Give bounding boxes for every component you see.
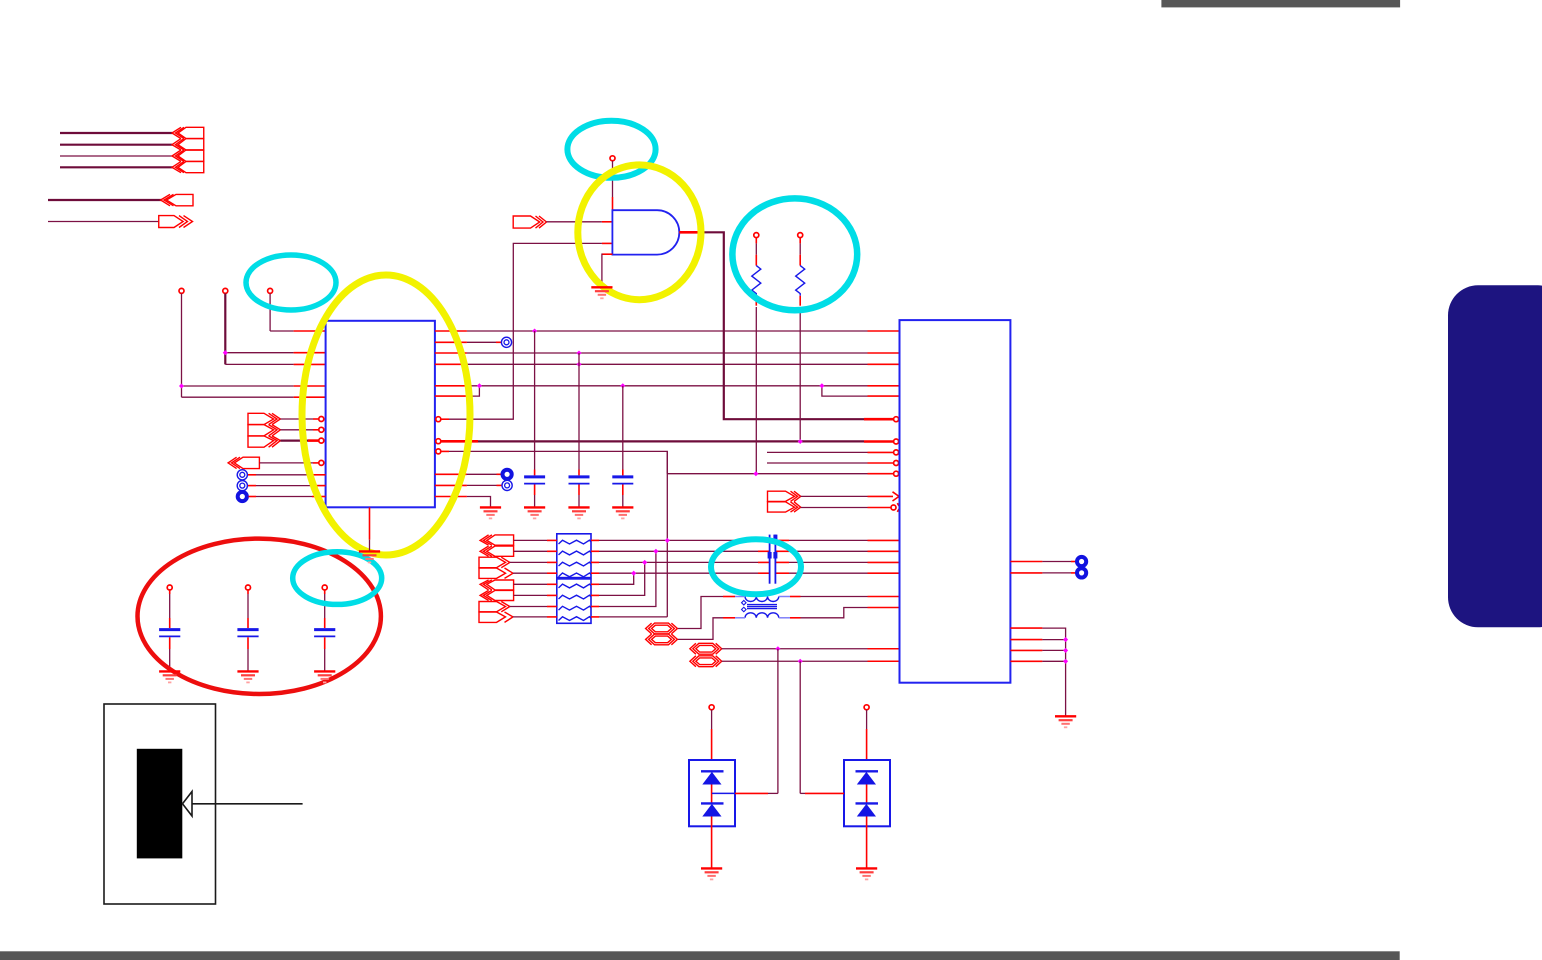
pin node above C6	[322, 585, 327, 590]
wire hex PH1a to T1 top-left	[723, 596, 735, 598]
wire RN row1 right to U2	[591, 539, 599, 541]
capacitor C2	[576, 350, 581, 355]
wire BUS1 line3	[60, 155, 173, 157]
junction dot R1/y473.7	[753, 471, 758, 476]
wire U1 y451.4 right then down x667.3	[441, 450, 449, 452]
wire U1 y485.4 to connector	[435, 484, 467, 486]
ground under C1	[524, 507, 545, 518]
wire to port P2	[48, 199, 162, 201]
wire T1 top-right to U2 y596.5	[790, 596, 801, 598]
resistor R1	[755, 238, 757, 244]
wire P4c to U1 y440.6 (thick)	[280, 440, 308, 442]
junction dot row2/x655.9	[653, 549, 658, 554]
wire U2 right y561.5 to connector	[1010, 561, 1042, 563]
wire D1 mid tap	[712, 792, 735, 794]
wire U2 right y650.4	[1010, 649, 1042, 651]
wire U2 right y639.6	[1010, 639, 1042, 641]
highlight cyan ellipse over AND pin	[567, 121, 655, 178]
wire from A2 down (thick)	[224, 294, 226, 365]
wire T1 bottom-right to U2 y607.5	[790, 617, 801, 619]
junction dot A2/y352.7	[223, 350, 228, 355]
junction dot 1065.6/661.3	[1063, 659, 1068, 664]
pin node above R1	[754, 233, 759, 238]
wire net y463 into U2	[767, 462, 868, 464]
wire U1 y496.5 to ground	[435, 496, 467, 498]
junction dot 1065.6/639.6	[1063, 637, 1068, 642]
pin node above D1	[709, 705, 714, 710]
capacitor C3	[620, 383, 625, 388]
ground at 490.5	[480, 507, 501, 518]
wire from A3 down	[269, 294, 271, 332]
wire U1 pin row y386 left	[182, 385, 294, 387]
connector J1 black body	[137, 749, 183, 859]
wire P7b to U2 y507.5	[801, 507, 868, 509]
wire net y473.7 from bend x667.3ish to U2	[667, 473, 867, 475]
wire P7a to U2 y496.4	[801, 495, 868, 497]
transformer T1 bottom winding	[745, 613, 779, 618]
highlight cyan ellipse over C7	[711, 539, 801, 594]
diode D2a	[856, 770, 879, 772]
capacitor C4	[169, 590, 171, 594]
wire BUS1 line2	[60, 144, 173, 146]
pin node above C4	[167, 585, 172, 590]
wire bend chip1 y451.4 down x667.3 handled above	[666, 451, 668, 473]
wire U1 pin row y331 left	[270, 330, 294, 332]
IC U1 body	[326, 321, 435, 508]
junction dot R2/y441.5	[798, 439, 803, 444]
port P2 (left-pointing flag)	[161, 194, 193, 205]
connector node NC5 (filled)	[503, 470, 512, 479]
wire net y452.4 into U2	[767, 451, 868, 453]
IC U2 body	[900, 320, 1011, 683]
wire D2 mid tap	[822, 792, 844, 794]
wire P4b to U1 y429.8	[280, 429, 313, 431]
port P3 (right-pointing flag)	[159, 216, 193, 228]
diode D1b	[701, 802, 724, 804]
wire U1 y342.3 to connector	[435, 341, 467, 343]
diode pack D1 box	[689, 760, 735, 826]
wires flags to RN rows1-8	[510, 540, 557, 617]
pin node above AND gate	[610, 156, 615, 161]
ground right of U2	[1055, 716, 1076, 727]
transformer T1 phase dots	[742, 600, 747, 605]
wire BUS1 line4	[60, 166, 173, 168]
wire R1 down to net y473.7	[755, 307, 757, 474]
resistor R2	[799, 238, 801, 244]
transformer T1 top winding	[745, 597, 779, 602]
connector node NC4 (open)	[501, 337, 511, 347]
pin circle U1 y429.8	[319, 427, 324, 432]
U2 pin arrow y496.4	[893, 492, 900, 501]
transformer T1 core	[747, 604, 777, 606]
wire RN row8 to bend x667.3	[591, 616, 599, 618]
wire down to D1 tap	[777, 649, 779, 794]
port P5 (left-pointing flag)	[228, 457, 259, 468]
junction dot row1/x667.3	[665, 538, 670, 543]
wire U1 pin row y364.4 left	[225, 363, 293, 365]
wire U1 bottom stem	[369, 507, 371, 539]
wire U2 right y661.3	[1010, 660, 1042, 662]
pin circle U2 left y473.7	[894, 471, 899, 476]
ground under C6	[314, 671, 335, 682]
highlight cyan circle over R1 R2	[732, 198, 857, 310]
ground under U1	[359, 551, 380, 562]
wire from A1 down	[181, 294, 183, 398]
pin node above D2	[864, 705, 869, 710]
connector node NC7 (filled)	[1077, 557, 1086, 566]
pin circle U2 y507.5	[891, 505, 896, 510]
wire NC3 to U1	[249, 496, 257, 498]
connector node NC3 (filled)	[238, 492, 247, 501]
pin circle U1 y440.6	[319, 438, 324, 443]
wire BUS1 line1	[60, 132, 173, 134]
port P6 (right-pointing flag) to AND input1	[513, 216, 546, 228]
highlight yellow ellipse over U1	[302, 275, 470, 555]
pin circle U1 y419	[319, 417, 324, 422]
diode pack D2 box	[844, 760, 890, 826]
ground under D1	[701, 868, 722, 879]
port P1 flag stack (4 left-pointing flags)	[172, 127, 204, 172]
wire RN row2 right to U2	[591, 550, 599, 552]
wire D2 bottom to ground	[866, 817, 868, 869]
arrow pointing at J1	[192, 803, 303, 805]
wire U1 pin row y397.2 left	[182, 396, 294, 398]
junction dot row3/x644.7	[642, 560, 647, 565]
highlight cyan ellipse over C6 pin	[293, 552, 382, 605]
highlight red ellipse over C4-C6	[138, 539, 381, 694]
wire NC2 to U1	[248, 485, 256, 487]
wire pin to AND gate top	[612, 161, 614, 197]
wire D1 bottom to ground	[711, 817, 713, 869]
wire RN row6 to bend x644.7	[591, 594, 599, 596]
port P7 flag pair to U2	[768, 491, 801, 512]
capacitor C7 series plates	[769, 535, 771, 584]
right side panel	[1448, 285, 1542, 627]
wire RN row3 right to U2	[591, 561, 599, 563]
port PH2 double hexagon pair	[690, 643, 722, 666]
ground under C2	[568, 507, 589, 518]
port PH1 double hexagon pair	[646, 623, 678, 645]
U2 pin arrow y507.5	[897, 503, 900, 512]
junction dot x800.2/y661.25	[798, 659, 803, 664]
junction dot x777.9/y648.75	[775, 646, 780, 651]
junction dot 479.4/385.8	[477, 383, 482, 388]
pin circle U2 left y441.5	[894, 439, 899, 444]
resistor network RN1 box	[557, 534, 591, 578]
RN zigzag resistors rows1-8	[559, 540, 592, 620]
diode D1a	[701, 770, 724, 772]
capacitor C6	[324, 590, 326, 594]
ground under C5	[237, 671, 258, 682]
wire hex PH1b to T1 bottom-left	[723, 617, 735, 619]
wire bend y385.8 to U2 pin y396.1	[822, 386, 868, 396]
wire AND bottom pin to ground	[602, 253, 613, 255]
wire to port P3	[48, 221, 159, 223]
wire P6 to AND input1	[547, 221, 602, 223]
wire U2 right y572.9 to connector	[1010, 572, 1042, 574]
ground under C3	[612, 507, 633, 518]
capacitor C5	[247, 590, 249, 594]
pin circle U2 left y463	[894, 461, 899, 466]
junction dot 821.9/385.8	[819, 383, 824, 388]
wire PH2a to U2 y648.75	[722, 648, 868, 650]
capacitor C1	[532, 328, 537, 333]
wire U1 y419.2 to AND input (up at x513.3)	[441, 418, 449, 420]
pin node above C5	[246, 585, 251, 590]
wire net row y331 U1 to U2	[435, 330, 467, 332]
wire net row y364.3 U1 to U2	[435, 363, 467, 365]
wire AND output to U2 y419.2 (thick)	[679, 231, 697, 234]
pin node A2	[223, 288, 228, 293]
port flags left of RN (8, alternating pairs)	[479, 535, 514, 623]
wire RN row7 to bend x655.9	[591, 606, 599, 608]
connector node NC1 (open)	[237, 470, 247, 480]
top toolbar fragment	[1161, 0, 1400, 7]
pin circle U2 left y419.2	[894, 417, 899, 422]
wire U2 right y628.1 to ground rail	[1010, 627, 1042, 629]
wire pin to D2	[866, 710, 868, 729]
junction dot 1065.6/650.4	[1063, 648, 1068, 653]
wire pin to D1	[711, 710, 713, 729]
wire U1 pin row y352.7 left	[225, 352, 293, 354]
wire thick net y441.5 U1 to U2	[441, 440, 478, 443]
pin node above R2	[798, 233, 803, 238]
diode D2b	[856, 802, 879, 804]
connector J1 outline box	[104, 704, 216, 904]
ground under C4	[159, 671, 180, 682]
port P4 flag stack (3 right-pointing flags)	[248, 413, 280, 447]
junction dot A1/y386	[179, 383, 184, 388]
pin circle U1 right y441.2	[436, 439, 441, 444]
pin node A3	[268, 288, 273, 293]
junction dot row4/x633.7	[631, 571, 636, 576]
wire down to D2 tap	[799, 661, 801, 793]
pin circle U1 y462.9	[319, 460, 324, 465]
wire RN row4 right to U2	[591, 572, 599, 574]
ground under D2	[856, 868, 877, 879]
resistor network RN2 box	[557, 579, 591, 623]
wire PH2b to U2 y661.25	[722, 660, 868, 662]
wire P4a to U1 y419	[280, 418, 313, 420]
pin node A1	[179, 288, 184, 293]
connector node NC6 (open)	[502, 480, 512, 490]
wire R2 down to thick net y441.5	[799, 307, 801, 442]
wire net row y353 U1 to U2	[435, 352, 467, 354]
wire U1 y474.3 to connector	[435, 473, 467, 475]
wire bend y385.8 to U1 pin y396.1	[467, 386, 480, 396]
pin circle U1 right y451.4	[436, 449, 441, 454]
pin circle U1 right y419.2	[436, 417, 441, 422]
highlight yellow circle over AND gate	[578, 165, 701, 300]
highlight cyan ellipse over pin A3	[246, 255, 336, 310]
AND gate U3	[612, 210, 679, 254]
pin circle U2 left y452.4	[894, 450, 899, 455]
wire P5 to U1 y462.9	[259, 462, 313, 464]
bottom taskbar	[0, 951, 1400, 960]
wire net row y385.8 U1 to U2	[435, 385, 467, 387]
wire NC1 to U1	[248, 474, 256, 476]
wire RN row5 to bend x633.7	[591, 583, 599, 585]
ground under AND gate	[591, 287, 612, 298]
connector node NC2 (open)	[237, 481, 247, 491]
connector node NC8 (filled)	[1077, 568, 1086, 577]
